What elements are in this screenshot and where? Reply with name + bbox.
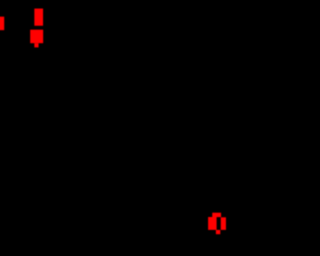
red blob bottom-right: top bump bbox=[212, 213, 221, 217]
red blob bottom-right: bottom stem bbox=[216, 230, 220, 234]
black background bbox=[0, 0, 256, 256]
red blob bottom-right: left body bbox=[208, 217, 217, 230]
red sprite: clipped rect at left edge bbox=[0, 17, 4, 31]
red sprite: block below bar bbox=[30, 30, 43, 44]
red sprite: tall bar top-left bbox=[34, 9, 43, 26]
red sprite: block stem bbox=[34, 43, 38, 47]
red blob bottom-right: right body bbox=[221, 217, 226, 230]
